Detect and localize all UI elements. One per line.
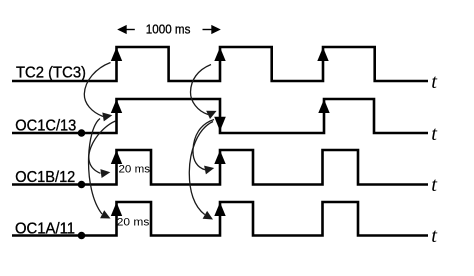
node edge arrow OC1C rise 2 [318, 99, 329, 113]
node start dot OC1C [78, 129, 86, 137]
node edge arrow TC2 rise 1 [111, 47, 122, 61]
wire curved arrow M2 OC1C fall to OC1B edge2 [193, 120, 214, 175]
svg-text:20 ms: 20 ms [117, 216, 150, 228]
svg-text:OC1C/13: OC1C/13 [15, 118, 76, 135]
node edge arrow OC1B rise 1 [111, 150, 122, 164]
node edge arrow OC1B rise 2 [214, 150, 225, 164]
node start dot OC1B [78, 181, 86, 189]
wire curved arrow M3 OC1C fall to OC1A edge2 [189, 122, 213, 220]
wire TC2 waveform [12, 47, 428, 81]
svg-text:1000 ms: 1000 ms [146, 22, 191, 37]
dimension arrow right (1000 ms) [203, 25, 221, 34]
wire curved arrow L1 TC2 edge1 to OC1C edge1 [84, 63, 112, 122]
node edge arrow OC1C rise 1 [111, 99, 122, 113]
node edge arrow TC2 rise 2 [214, 47, 225, 61]
svg-text:TC2 (TC3): TC2 (TC3) [16, 64, 86, 81]
wire curved arrow L3 OC1C edge1 to OC1A edge1 [89, 119, 111, 219]
wire curved arrow M1 TC2 edge2 to OC1C fall [190, 65, 216, 120]
wire OC1A waveform [12, 202, 428, 236]
node edge arrow OC1C fall (down) [214, 117, 226, 131]
node edge arrow OC1A rise 1 [111, 202, 122, 216]
svg-text:20 ms: 20 ms [119, 164, 151, 176]
wire OC1B waveform [12, 150, 428, 185]
node edge arrow OC1A rise 2 [214, 202, 225, 216]
wire OC1C waveform [12, 99, 428, 133]
node start dot OC1A [78, 232, 86, 240]
svg-text:OC1A/11: OC1A/11 [15, 220, 75, 237]
dimension arrow left (1000 ms) [117, 25, 135, 34]
node edge arrow TC2 rise 3 [317, 47, 328, 61]
svg-text:OC1B/12: OC1B/12 [15, 169, 75, 186]
wire curved arrow L2 OC1C edge1 to OC1B edge1 [89, 121, 116, 178]
